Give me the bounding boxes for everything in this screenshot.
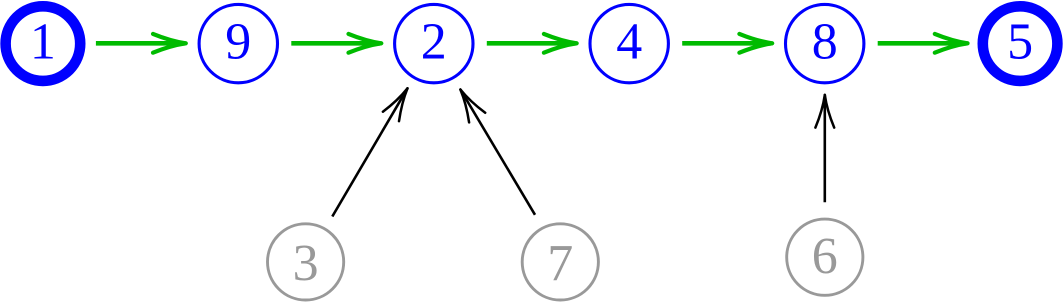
svg-text:5: 5 — [1007, 14, 1033, 71]
svg-text:9: 9 — [225, 14, 251, 71]
svg-text:3: 3 — [293, 235, 319, 292]
svg-text:7: 7 — [547, 235, 573, 292]
svg-text:1: 1 — [30, 14, 56, 71]
svg-text:6: 6 — [812, 228, 838, 285]
svg-text:8: 8 — [812, 14, 838, 71]
svg-text:2: 2 — [421, 14, 447, 71]
svg-text:4: 4 — [616, 14, 642, 71]
